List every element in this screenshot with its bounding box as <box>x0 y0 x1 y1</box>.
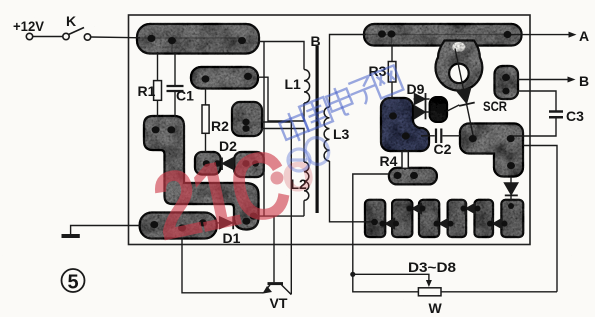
wire VT base drop <box>273 216 275 282</box>
inductor L3 <box>324 107 329 161</box>
wire collector drop <box>290 122 292 294</box>
svg-text:D9: D9 <box>407 81 425 97</box>
svg-text:L3: L3 <box>333 126 350 142</box>
svg-text:R4: R4 <box>380 153 398 169</box>
wire +12V to switch <box>33 36 63 38</box>
resistor R4 <box>404 149 406 152</box>
svg-text:SCR: SCR <box>483 98 507 114</box>
ground <box>71 226 140 235</box>
wire output B <box>518 79 571 81</box>
PCB trace blob 3 <box>232 102 262 136</box>
PCB ring blob <box>436 41 483 91</box>
wire B blob to C3 <box>517 91 556 112</box>
PCB trace Z-shaped blob <box>144 116 259 230</box>
solder pads right board <box>371 30 515 226</box>
svg-text:K: K <box>66 13 76 29</box>
diode D4 <box>410 203 412 215</box>
diode D7 <box>491 218 493 230</box>
wire elbow to output rail <box>523 146 557 292</box>
resistor R2 <box>205 89 207 105</box>
wire node drop V1 <box>263 42 265 217</box>
svg-text:C1: C1 <box>176 88 194 104</box>
switch K <box>26 33 32 39</box>
diode D5 <box>437 218 439 230</box>
wire elbow pad to C3 bottom <box>512 117 556 136</box>
lead R3 through bar <box>391 35 393 46</box>
wire top blob to L1 <box>258 42 304 70</box>
wire L3 top to R3 blob <box>330 35 367 108</box>
wire through top-left blob <box>140 37 244 39</box>
svg-text:W: W <box>429 300 443 316</box>
diode D6 <box>464 203 466 215</box>
PCB blob row b3 <box>419 200 439 237</box>
SCR symbol <box>455 49 473 137</box>
PCB blob row b4 <box>448 200 467 237</box>
diode D3 <box>384 218 386 230</box>
wire L1 bottom return <box>258 77 304 121</box>
junction dot <box>350 272 355 277</box>
solder pads left board <box>147 35 259 232</box>
PCB trace blob 2 <box>191 67 258 89</box>
wire switch to board <box>91 36 140 39</box>
lead C1 through blob <box>171 41 173 53</box>
watermark blue e0 fragment <box>288 135 332 171</box>
PCB blob B <box>495 66 519 99</box>
wire emitter run <box>182 239 264 293</box>
PCB trace blob bottom-left <box>140 213 217 239</box>
PCB elbow blob <box>460 124 523 177</box>
wire pill to bottom junction <box>353 174 389 274</box>
wire elbow pad to L2 bottom <box>254 215 304 217</box>
figure number 5 <box>62 269 85 292</box>
wire blob3 to L2 <box>262 129 304 163</box>
inductor L2 <box>304 162 309 200</box>
svg-text:R2: R2 <box>211 118 229 134</box>
resistor R1 <box>157 52 159 81</box>
wire L2 bottom <box>303 200 305 216</box>
svg-text:C2: C2 <box>434 141 452 157</box>
PCB trace blob top-left <box>137 24 259 54</box>
svg-text:L1: L1 <box>285 76 302 92</box>
svg-text:VT: VT <box>270 295 288 311</box>
watermark blue characters <box>277 65 403 145</box>
PCB pad blob D2 right <box>234 152 263 177</box>
wire junction to W wiper arrow <box>353 274 429 282</box>
diode D1 <box>217 222 220 224</box>
wire output A <box>508 34 572 36</box>
PCB blob row b2 <box>392 200 412 237</box>
svg-text:B: B <box>311 33 321 49</box>
watermark red dot <box>271 172 284 185</box>
diode D9 upper <box>414 98 415 100</box>
capacitor C2 <box>421 135 435 137</box>
capacitor C1 <box>174 52 176 86</box>
wire blob3 to collector drop <box>262 121 291 123</box>
wire L3 bottom to rectifier row <box>330 161 375 222</box>
transformer core <box>316 46 319 213</box>
capacitor C3 <box>549 112 563 118</box>
svg-text:D3~D8: D3~D8 <box>408 259 456 275</box>
diode D9 lower <box>415 106 426 119</box>
PCB blob row b5 <box>475 200 494 237</box>
potentiometer W <box>353 274 419 292</box>
svg-text:B: B <box>579 73 589 89</box>
PCB pad blob D2 left <box>195 152 221 175</box>
diode D2 <box>221 158 223 171</box>
svg-text:A: A <box>579 28 589 44</box>
resistor R3 <box>391 46 393 62</box>
inductor L1 <box>304 70 310 104</box>
diode D8 (below elbow) <box>510 177 512 184</box>
PCB pill blob R4 bottom <box>389 168 437 185</box>
PCB blob row b1 <box>365 200 385 237</box>
transistor VT <box>268 282 284 285</box>
wire through top bar <box>366 34 506 36</box>
PCB dark pad blob (SCR gate) <box>430 97 448 122</box>
svg-text:+12V: +12V <box>13 18 45 34</box>
svg-text:R1: R1 <box>138 83 156 99</box>
enclosure box <box>129 15 531 245</box>
PCB trace top bar right <box>364 24 522 46</box>
svg-text:5: 5 <box>67 272 78 294</box>
PCB blob row b6 <box>501 200 523 237</box>
svg-text:C3: C3 <box>566 108 584 124</box>
PCB blob R4 area (blue tinted by watermark) <box>381 98 429 151</box>
